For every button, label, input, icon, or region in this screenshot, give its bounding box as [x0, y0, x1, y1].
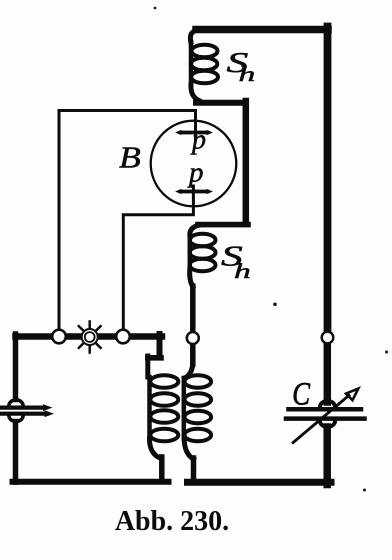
svg-text:h: h [234, 260, 251, 283]
svg-text:p: p [190, 124, 206, 155]
svg-text:C: C [292, 377, 311, 412]
svg-text:B: B [119, 141, 141, 175]
svg-text:Abb. 230.: Abb. 230. [115, 506, 229, 537]
svg-text:p: p [187, 156, 204, 188]
svg-text:h: h [239, 63, 256, 86]
